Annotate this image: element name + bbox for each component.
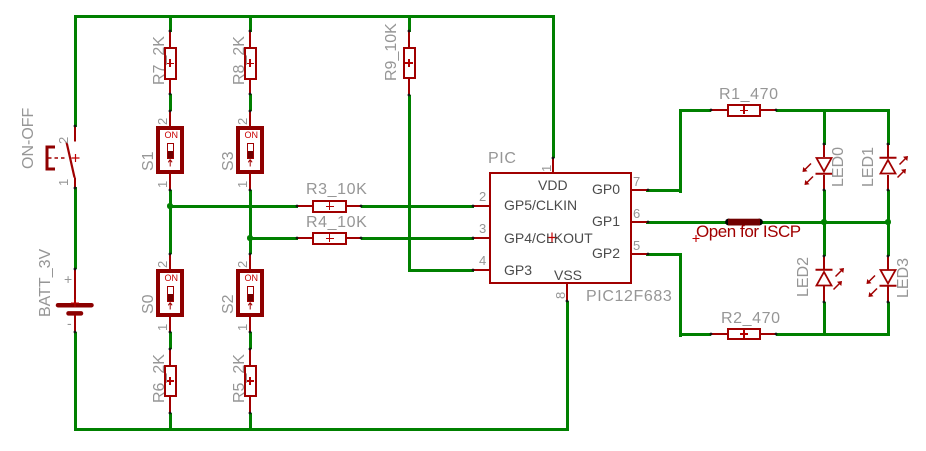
IC pin 2 stub — [473, 205, 489, 207]
wire GP2 vertical drop to R2 — [679, 253, 682, 338]
label S3 — [221, 151, 237, 171]
pin number 1 of S2 — [236, 324, 249, 331]
pin number 1 of ON-OFF — [57, 178, 70, 185]
wire node GP5 horizontal left segment — [169, 205, 298, 208]
wire column1 S1 to S0 through node GP5 — [169, 190, 172, 254]
resistor R6 — [169, 349, 171, 365]
pin name GP2 — [592, 246, 620, 260]
IC pin 7 stub — [632, 189, 648, 191]
wire column1 R7 to S1 — [169, 94, 172, 111]
node junction GP1 at LED1 column — [885, 219, 891, 225]
pin number 7 of IC — [633, 175, 640, 188]
label LED2 — [796, 256, 812, 296]
resistor R3 — [297, 205, 312, 207]
wire column3 R9 down to GP3 corner — [408, 95, 411, 272]
node junction GP5 at column1 — [167, 203, 173, 209]
wire R2 right segment to LED columns — [776, 333, 890, 336]
wire R1 left segment — [679, 109, 712, 112]
wire column2 R8 to S3 — [249, 94, 252, 111]
wire column3 R9 top stub — [408, 15, 411, 32]
battery plus mark — [64, 272, 72, 286]
wire column1 S0 to R6 — [169, 332, 172, 349]
label PIC12F683 — [586, 289, 672, 305]
pin name VSS — [554, 268, 582, 282]
pin number 8 of IC — [554, 291, 567, 298]
LED0 diode — [823, 144, 825, 157]
label LED1 — [861, 146, 877, 186]
switch S3 — [249, 111, 251, 127]
pin number 2 of S3 — [236, 117, 249, 124]
resistor R1 — [711, 109, 727, 111]
wire LED0 column lower — [823, 190, 826, 256]
wire GP3 horizontal to IC pin 4 — [408, 269, 475, 272]
resistor R4 — [297, 237, 312, 239]
pin number 1 of S3 — [236, 181, 249, 188]
label LED3 — [896, 257, 912, 297]
IC pin 8 stub — [566, 284, 568, 301]
wire GP2 pin 5 horizontal — [646, 253, 682, 256]
label R4_10K — [306, 215, 367, 231]
wire left rail middle segment — [74, 187, 77, 269]
label R1_470 — [719, 87, 779, 103]
wire column1 R6 to bottom rail — [169, 413, 172, 428]
pin number 3 of IC — [479, 222, 486, 235]
node junction GP4 at column2 — [247, 235, 253, 241]
label R7_2K — [152, 36, 168, 85]
pin name GP3 — [504, 263, 532, 277]
label PIC — [488, 151, 516, 167]
resistor R2 — [711, 333, 727, 335]
pin number 2 of S0 — [156, 260, 169, 267]
wire GP0 pin 7 horizontal — [646, 189, 682, 192]
resistor R7 — [169, 31, 171, 47]
pin name GP4/CLKOUT — [504, 231, 593, 245]
wire node GP4 horizontal right segment to IC pin 3 — [361, 237, 474, 240]
label R8_2K — [232, 36, 248, 85]
wire LED1 column upper — [887, 109, 890, 146]
pin number 2 of ON-OFF — [57, 137, 70, 144]
wire GP1 pin 6 horizontal to LED columns — [646, 221, 890, 224]
wire column2 S3 to S2 through node GP4 — [249, 190, 252, 254]
pin number 4 of IC — [479, 254, 486, 267]
LED2 diode — [823, 256, 825, 270]
wire column2 R5 to bottom rail — [249, 413, 252, 428]
wire column2 R8 top stub — [249, 15, 252, 32]
switch S2 — [249, 254, 251, 270]
wire left rail lower segment — [74, 332, 77, 431]
wire node GP4 horizontal left segment — [249, 237, 298, 240]
IC pin 1 stub — [552, 158, 554, 172]
wire LED1 column lower — [887, 190, 890, 256]
battery minus mark — [67, 316, 72, 330]
pin name GP1 — [592, 214, 620, 228]
label Open for ISCP — [696, 223, 801, 240]
label S1 — [141, 151, 157, 171]
IC pin 6 stub — [632, 221, 648, 223]
LED3 diode — [887, 256, 889, 270]
wire R2 left segment — [679, 333, 712, 336]
label R2_470 — [721, 311, 781, 327]
resistor R8 — [249, 31, 251, 47]
switch S1 — [169, 111, 171, 127]
label R3_10K — [306, 182, 367, 198]
label ON-OFF — [21, 107, 37, 168]
wire IC pin 8 down to bottom rail — [566, 301, 569, 431]
wire LED0 column upper — [823, 109, 826, 146]
pin number 5 of IC — [633, 239, 640, 252]
switch S0 — [169, 254, 171, 270]
resistor R5 — [249, 349, 251, 365]
pin number 1 of IC — [540, 164, 553, 171]
label S2 — [221, 294, 237, 314]
label R9_10K — [384, 23, 400, 81]
wire bottom rail GND net — [74, 428, 569, 431]
pin name VDD — [538, 178, 568, 192]
wire R1 right segment to LED columns — [776, 109, 890, 112]
op IC U1 PIC12F683 body — [489, 172, 632, 284]
wire node GP5 horizontal right segment to IC pin 2 — [361, 205, 474, 208]
wire column1 R7 top stub — [169, 15, 172, 32]
wire left rail upper segment — [74, 15, 77, 127]
pin number 1 of S1 — [156, 181, 169, 188]
pin number 1 of S0 — [156, 324, 169, 331]
pin number 2 of S2 — [236, 260, 249, 267]
label S0 — [141, 294, 157, 314]
wire GP0 vertical riser to R1 — [679, 109, 682, 194]
pin number 2 of IC — [479, 190, 486, 203]
label LED0 — [831, 146, 847, 186]
node junction GP1 at LED0 column — [821, 219, 827, 225]
IC pin 5 stub — [632, 253, 648, 255]
pin name GP5/CLKIN — [504, 198, 577, 212]
resistor R9 — [408, 31, 410, 47]
LED1 diode — [887, 144, 889, 157]
pin number 6 of IC — [633, 207, 640, 220]
pin number 2 of S1 — [156, 117, 169, 124]
wire LED3 column lower — [887, 302, 890, 336]
label R6_2K — [152, 354, 168, 403]
wire top rail VDD net — [74, 15, 555, 18]
label R5_2K — [232, 354, 248, 403]
label BATT_3V — [38, 249, 54, 317]
wire IC pin 1 drop from top rail — [552, 15, 555, 159]
pin name GP0 — [592, 182, 620, 196]
wire column2 S2 to R5 — [249, 332, 252, 349]
wire LED2 column lower — [823, 302, 826, 336]
IC pin 4 stub — [473, 269, 489, 271]
IC pin 3 stub — [473, 237, 489, 239]
